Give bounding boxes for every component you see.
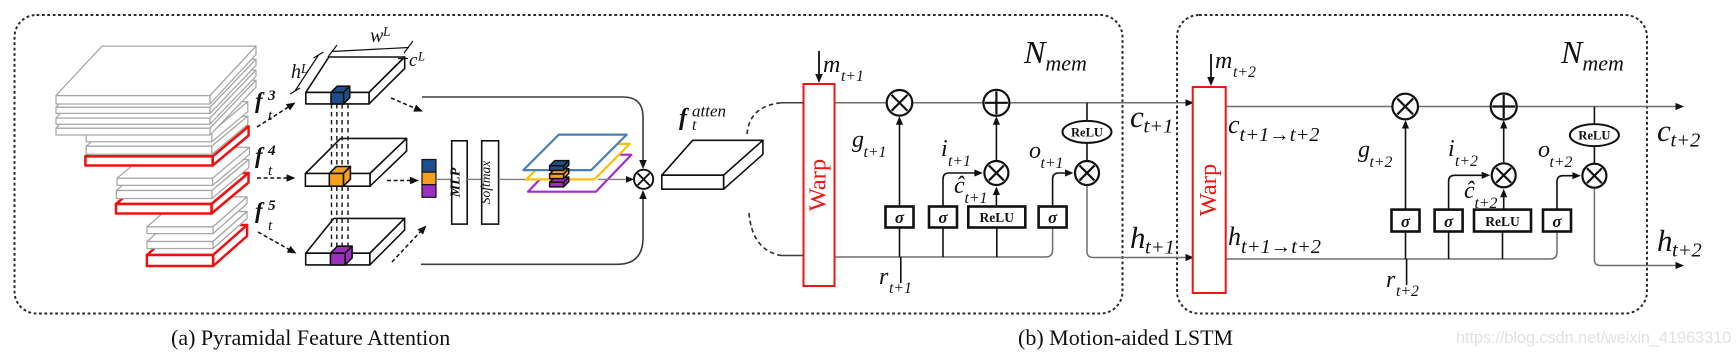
cell1 sigma2 tap wire with elbow <box>942 228 944 258</box>
svg-text:t+1: t+1 <box>1145 237 1175 259</box>
svg-text:ReLU: ReLU <box>1578 129 1610 143</box>
cell1 Warp box <box>804 84 835 286</box>
svg-text:σ: σ <box>895 208 905 227</box>
svg-text:f: f <box>255 198 265 223</box>
cell2 sigma2 box <box>1435 210 1463 232</box>
cell2 sigma1 tap wire <box>1405 232 1407 260</box>
pyramid level-5 red slab f5 <box>147 225 247 266</box>
attention slab B <box>305 138 406 186</box>
svg-text:i: i <box>941 136 948 162</box>
svg-text:3: 3 <box>267 87 276 104</box>
cell2 sigma3 tap wire with elbow <box>1557 176 1577 210</box>
cell2 c-line wire <box>1226 106 1680 108</box>
svg-text:c: c <box>1228 110 1240 139</box>
pyramid level-2 slab gray 4 <box>56 80 256 135</box>
svg-text:ĉ: ĉ <box>954 173 965 199</box>
svg-text:Nmem: Nmem <box>1023 34 1087 76</box>
cell2 candidate tap wire <box>1502 232 1504 260</box>
svg-text:f: f <box>255 143 265 168</box>
top curve slab A to multiplier <box>422 97 643 163</box>
cell1 candidate tap wire <box>996 228 998 258</box>
svg-text:t: t <box>268 162 273 179</box>
svg-text:t+1: t+1 <box>965 190 988 207</box>
attention multiplier circle-times <box>634 170 653 189</box>
svg-text:L: L <box>300 61 308 76</box>
dashed arrow slab A to legend <box>391 98 417 109</box>
svg-text:t+2: t+2 <box>1233 64 1256 81</box>
cell2 h-bus wire <box>1226 232 1557 260</box>
cell2 sigma2 tap wire with elbow <box>1448 232 1450 260</box>
cell1 h-exit wire <box>1087 173 1190 258</box>
bottom curve slab C to multiplier <box>421 196 643 264</box>
svg-text:Softmax: Softmax <box>478 161 493 205</box>
cell2 multiplier o <box>1582 164 1606 188</box>
attention slab C <box>306 218 405 265</box>
svg-text:t+2: t+2 <box>1671 130 1701 152</box>
svg-text:c: c <box>1657 113 1671 148</box>
svg-text:MLP: MLP <box>449 167 464 198</box>
svg-text:m: m <box>823 52 840 78</box>
svg-text:5: 5 <box>268 197 276 214</box>
dashed arrow f4 to slab B <box>257 177 288 179</box>
svg-text:ReLU: ReLU <box>1071 125 1103 139</box>
svg-text:σ: σ <box>938 208 948 227</box>
svg-text:t: t <box>692 117 697 134</box>
cell1 adder plus <box>983 90 1009 116</box>
svg-text:w: w <box>370 25 384 47</box>
cell2 sigma3 box <box>1543 210 1571 232</box>
pyramid level-3 slab gray 1 <box>86 102 248 142</box>
svg-text:m: m <box>1215 48 1232 74</box>
svg-text:h: h <box>1657 223 1673 258</box>
cell1 multiplier i <box>984 161 1008 185</box>
svg-text:f: f <box>679 105 689 131</box>
legend purple cell <box>422 185 436 198</box>
svg-text:g: g <box>1358 137 1370 163</box>
wire MLP to Softmax <box>467 178 482 180</box>
dashed arrow slab B to legend <box>387 180 412 182</box>
svg-text:t+2: t+2 <box>1455 153 1478 170</box>
cell2 i to plus wire <box>1503 123 1505 163</box>
svg-text:atten: atten <box>692 102 726 121</box>
svg-text:t+2: t+2 <box>1550 154 1573 171</box>
cell1 c-line wire <box>835 102 1191 104</box>
cell1 r input wire <box>900 257 902 283</box>
pyramid level-4 slab gray 2 <box>116 160 249 199</box>
dashed rounded container box (a) <box>15 15 1123 314</box>
blue voxel on slab A <box>331 86 350 104</box>
cell1 sigma3 tap wire with elbow <box>1053 173 1070 207</box>
svg-text:t+1→t+2: t+1→t+2 <box>1241 236 1321 258</box>
svg-text:c: c <box>409 50 418 71</box>
svg-text:ReLU: ReLU <box>1485 214 1520 229</box>
blue plane <box>523 135 626 171</box>
svg-text:t+1: t+1 <box>948 153 971 170</box>
svg-text:h: h <box>1228 222 1241 251</box>
pyramid level-5 slab gray 1 <box>147 197 247 234</box>
cell1 dashed boundary arcs <box>747 103 781 134</box>
svg-text:σ: σ <box>1444 212 1454 231</box>
cell1 c branch to ReLU oval wire <box>1086 103 1088 173</box>
cell1 sigma1 tap wire <box>899 228 901 258</box>
pyramid level-4 slab gray 1 <box>117 147 250 185</box>
Softmax box <box>482 141 499 224</box>
svg-text:f: f <box>255 88 265 113</box>
wire Softmax to planes <box>499 178 545 180</box>
cell1 m input arrow <box>818 51 820 77</box>
svg-text:r: r <box>1386 267 1396 293</box>
svg-text:σ: σ <box>1401 212 1411 231</box>
svg-text:https://blog.csdn.net/weixin_4: https://blog.csdn.net/weixin_41963310 <box>1456 329 1731 347</box>
legend orange cell <box>422 172 436 185</box>
svg-text:L: L <box>417 49 425 63</box>
cell2 c branch to ReLU oval wire <box>1593 107 1595 176</box>
svg-text:t+2: t+2 <box>1475 195 1498 212</box>
pyramid level-2 slab thick top <box>56 46 256 104</box>
cell1 sigma3 box <box>1039 207 1067 228</box>
cell2 multiplier g <box>1392 94 1418 120</box>
svg-text:σ: σ <box>1048 208 1058 227</box>
svg-text:t+1: t+1 <box>889 280 912 297</box>
svg-text:t+1→t+2: t+1→t+2 <box>1240 124 1320 146</box>
svg-text:t+1: t+1 <box>1041 155 1064 172</box>
wire legend to MLP <box>436 178 452 180</box>
cell2 Warp box <box>1193 87 1226 293</box>
dashed arrow f3 to slab A <box>257 106 290 127</box>
svg-text:4: 4 <box>267 142 276 159</box>
svg-text:i: i <box>1448 136 1455 162</box>
svg-text:h: h <box>1130 220 1146 255</box>
svg-text:g: g <box>852 127 864 153</box>
cell2 multiplier i <box>1492 163 1516 187</box>
wire planes to multiplier <box>598 178 628 180</box>
dashed rounded container box (b) <box>1177 15 1647 314</box>
cell1 sigma2 box <box>929 207 957 228</box>
svg-text:t: t <box>268 107 273 124</box>
svg-text:t+2: t+2 <box>1672 240 1702 262</box>
pyramid level-2 slab gray 3 <box>56 70 256 124</box>
cell2 r input wire <box>1406 259 1408 285</box>
tiny orange voxel <box>550 169 569 179</box>
svg-text:o: o <box>1538 137 1550 163</box>
pyramid level-5 slab gray 2 <box>147 212 247 249</box>
svg-text:t: t <box>268 217 273 234</box>
dashed arrow slab C to legend <box>392 231 421 262</box>
cell2 m input arrow <box>1210 54 1212 80</box>
pyramid level-3 red slab f3 <box>85 126 248 165</box>
cell1 multiplier o <box>1075 161 1099 185</box>
cell1 ReLU box <box>968 207 1025 228</box>
svg-text:Warp: Warp <box>805 159 832 211</box>
svg-text:t+2: t+2 <box>1396 283 1419 300</box>
svg-text:r: r <box>879 264 889 290</box>
svg-text:h: h <box>291 61 301 83</box>
svg-text:(b) Motion-aided LSTM: (b) Motion-aided LSTM <box>1018 325 1233 350</box>
svg-text:Warp: Warp <box>1195 164 1222 216</box>
orange voxel on slab B <box>329 167 350 187</box>
output slab f_t^atten <box>662 140 763 189</box>
attention slab A <box>306 57 405 104</box>
svg-text:σ: σ <box>1552 212 1562 231</box>
svg-text:L: L <box>382 24 390 39</box>
purple voxel on slab C <box>330 246 352 265</box>
MLP box <box>452 141 468 224</box>
cell2 h-exit wire <box>1594 176 1680 266</box>
dashed arrow f5 to slab C <box>258 232 290 250</box>
dimension line h^L <box>295 55 319 91</box>
cell2 ReLU oval <box>1570 124 1619 146</box>
dashed projection lines voxel column <box>331 104 333 168</box>
cell1 i to plus wire <box>995 119 997 160</box>
pyramid level-4 red slab f4 <box>116 173 249 214</box>
svg-text:ReLU: ReLU <box>980 210 1015 225</box>
svg-text:Nmem: Nmem <box>1560 34 1624 76</box>
cell1 multiplier g <box>887 90 913 116</box>
dimension line w^L <box>332 48 409 52</box>
svg-text:t+1: t+1 <box>1144 116 1174 138</box>
svg-text:t+1: t+1 <box>841 68 864 85</box>
cell1 h-bus wire <box>835 228 1053 258</box>
yellow plane <box>526 144 629 180</box>
cell1 sigma1 box <box>886 207 914 228</box>
pyramid level-2 slab gray 2 <box>56 59 256 113</box>
dimension tick c^L <box>398 58 408 60</box>
svg-text:t+2: t+2 <box>1370 154 1393 171</box>
svg-text:o: o <box>1029 138 1041 164</box>
tiny purple voxel <box>550 177 569 187</box>
cell2 adder plus <box>1491 94 1517 120</box>
cell2 sigma1 box <box>1392 210 1420 232</box>
pyramid level-3 slab gray 2 <box>86 116 248 154</box>
cell2 ReLU box <box>1474 210 1531 232</box>
cell1 ReLU oval <box>1063 121 1112 143</box>
svg-text:(a) Pyramidal Feature Attentio: (a) Pyramidal Feature Attention <box>171 325 450 350</box>
tiny blue voxel <box>550 161 569 171</box>
svg-text:t+1: t+1 <box>864 144 887 161</box>
svg-text:c: c <box>1130 99 1144 134</box>
svg-text:ĉ: ĉ <box>1464 178 1475 204</box>
legend blue cell <box>422 160 436 173</box>
purple plane <box>528 155 631 192</box>
